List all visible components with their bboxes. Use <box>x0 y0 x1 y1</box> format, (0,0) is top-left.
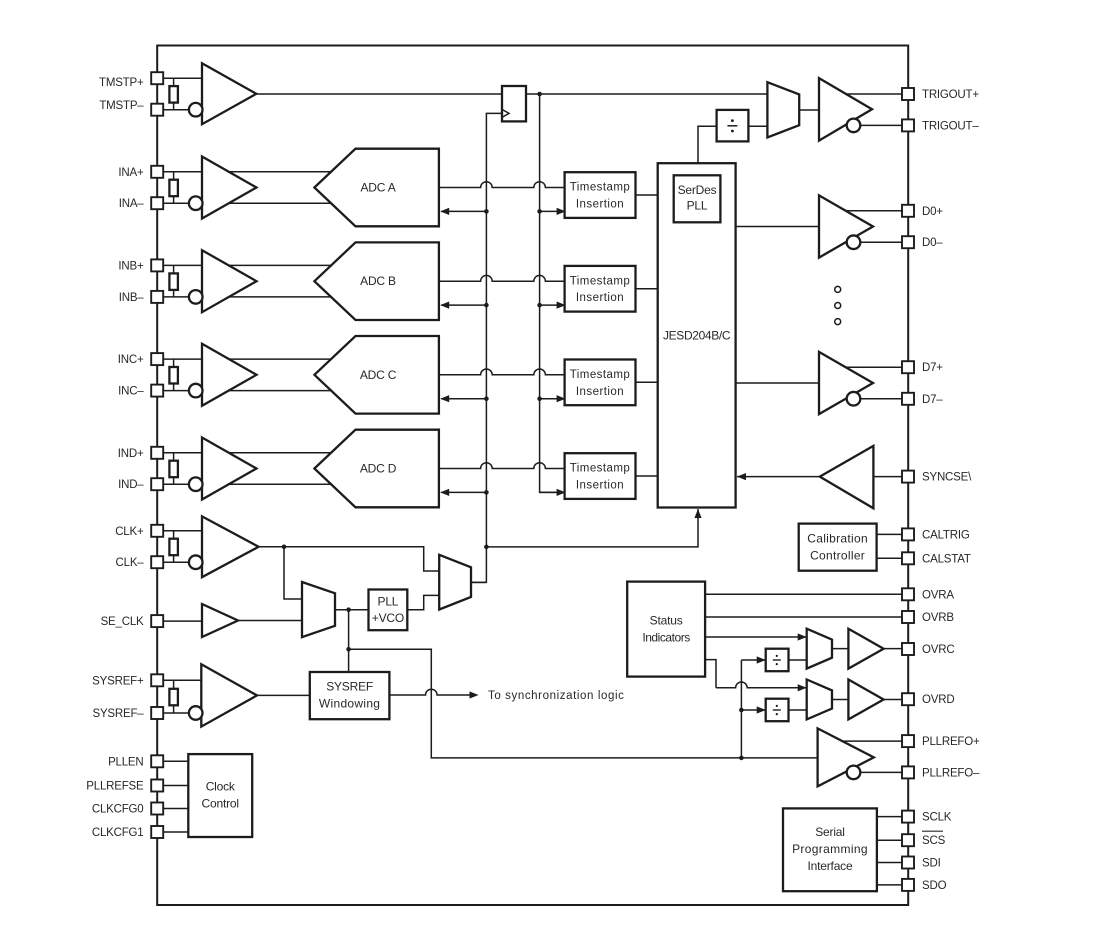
svg-text:OVRB: OVRB <box>922 612 954 624</box>
svg-text:CLKCFG0: CLKCFG0 <box>92 804 144 816</box>
wire sample clock into ADC C <box>441 398 486 400</box>
ADC D <box>314 430 439 508</box>
pin OVRD <box>902 693 914 705</box>
mux PLL bypass <box>439 555 471 610</box>
wire IND- input <box>163 483 340 485</box>
wire CLKCFG0 <box>163 808 188 810</box>
input buffer SE_CLK <box>202 604 238 637</box>
svg-text:Interface: Interface <box>808 859 853 873</box>
wire CLK+ input <box>163 530 212 532</box>
inversion bubble <box>189 290 203 304</box>
pin SDI <box>902 857 914 869</box>
arrowhead into Timestamp D <box>557 489 566 496</box>
ADC B <box>314 242 439 320</box>
wire SE_CLK input <box>163 620 210 622</box>
resistor termination INC <box>169 367 178 384</box>
wire CALSTAT <box>877 557 902 559</box>
arrowhead into OVRD divider <box>757 706 766 713</box>
wire SYNCSE from pad <box>874 476 902 478</box>
wire INC+ input <box>163 358 340 360</box>
wire ADC C data output <box>439 369 565 375</box>
junction clock ADC A <box>484 209 489 214</box>
pin D0+ <box>902 205 914 217</box>
wire PLLREFSE <box>163 785 188 787</box>
wire INA+ input <box>163 171 340 173</box>
divider block OVRD <box>766 699 789 722</box>
wire PLLREFO- output <box>860 771 902 773</box>
svg-text:CLK–: CLK– <box>116 557 145 569</box>
pin D7+ <box>902 361 914 373</box>
wire PLLEN <box>163 760 188 762</box>
arrowhead sync logic <box>470 691 479 698</box>
svg-text:INC–: INC– <box>118 386 144 398</box>
wire TMSTP- input <box>163 109 196 111</box>
output buffer OVRC <box>848 629 883 669</box>
svg-text:IND+: IND+ <box>118 448 144 460</box>
divider block trigger <box>717 110 749 141</box>
input buffer amp CLK <box>202 516 259 577</box>
Status Indicators block <box>627 582 705 677</box>
arrowhead into JESD right <box>737 473 746 480</box>
wire OVRD mux to buffer <box>832 699 848 701</box>
wire SYSREF+ input <box>163 679 212 681</box>
resistor termination INB <box>169 273 178 290</box>
wire Timestamp B to JESD <box>636 288 658 290</box>
wire from resistor <box>173 477 175 484</box>
svg-text:To synchronization logic: To synchronization logic <box>488 690 625 702</box>
svg-text:TMSTP+: TMSTP+ <box>99 77 144 89</box>
wire OVRD divider to mux <box>789 709 807 711</box>
pin SYSREF+ <box>151 674 163 686</box>
svg-text:CALTRIG: CALTRIG <box>922 529 970 541</box>
arrowhead into OVRC mux <box>798 633 807 640</box>
svg-text:Indicators: Indicators <box>642 631 690 645</box>
svg-text:SCLK: SCLK <box>922 812 952 824</box>
pin INA&#8211; <box>151 197 163 209</box>
input buffer amp INC <box>202 344 257 406</box>
pin TRIGOUT+ <box>902 88 914 100</box>
wire Timestamp D to JESD <box>636 475 658 477</box>
svg-text:IND–: IND– <box>118 479 144 491</box>
input buffer amp SYSREF <box>201 664 257 726</box>
junction trigger B <box>537 303 542 308</box>
svg-text:Controller: Controller <box>810 549 865 563</box>
wire sample clock into ADC B <box>441 304 486 306</box>
svg-text:Insertion: Insertion <box>576 480 624 492</box>
junction trigger C <box>537 396 542 401</box>
svg-text:CLK+: CLK+ <box>115 526 144 538</box>
JESD204B/C block <box>658 163 736 507</box>
wire mux1 to PLL <box>335 609 369 611</box>
Timestamp Insertion A <box>565 172 636 218</box>
wire trigger into Timestamp C <box>540 398 565 400</box>
SYSREF Windowing block <box>310 672 390 719</box>
wire CLK to mux2 <box>259 547 440 571</box>
Timestamp Insertion C <box>565 360 636 406</box>
wire ADC D data output <box>439 463 565 469</box>
wire OVRD output <box>884 699 902 701</box>
resistor termination CLK <box>169 539 178 556</box>
pin INA+ <box>151 166 163 178</box>
wire to resistor <box>173 531 175 539</box>
wire CLK- input <box>163 561 196 563</box>
wire into OVRD divider <box>741 709 764 711</box>
output buffer PLLREFO <box>818 728 874 786</box>
wire IND+ input <box>163 452 340 454</box>
wire PLL to mux2 <box>407 595 439 609</box>
arrowhead into OVRC divider <box>757 656 766 663</box>
svg-text:Windowing: Windowing <box>319 697 380 711</box>
pin CALTRIG <box>902 528 914 540</box>
inversion bubble <box>189 555 203 569</box>
chip outline <box>157 46 908 906</box>
svg-text:D7+: D7+ <box>922 362 943 374</box>
svg-text:TRIGOUT–: TRIGOUT– <box>922 120 979 132</box>
pin D0&#8211; <box>902 236 914 248</box>
pin PLLREFO+ <box>902 735 914 747</box>
wire JESD to D0 buffer <box>736 226 819 228</box>
svg-text:PLLREFO–: PLLREFO– <box>922 767 980 779</box>
wire CALTRIG <box>877 533 902 535</box>
inversion bubble <box>189 196 203 210</box>
svg-text:CALSTAT: CALSTAT <box>922 553 971 565</box>
wire trigger into Timestamp A <box>540 210 565 212</box>
pin D7&#8211; <box>902 393 914 405</box>
svg-text:Timestamp: Timestamp <box>570 463 631 475</box>
svg-text:PLLREFSE: PLLREFSE <box>86 781 144 793</box>
wire OVRB <box>705 616 902 618</box>
wire to resistor <box>173 265 175 273</box>
svg-text:Timestamp: Timestamp <box>570 182 631 194</box>
pin SE_CLK <box>151 615 163 627</box>
wire Timestamp A to JESD <box>636 194 658 196</box>
wire to synchronization logic <box>389 689 469 695</box>
arrowhead into Timestamp C <box>557 395 566 402</box>
wire trigger vertical <box>540 94 565 492</box>
wire clock to JESD204 <box>486 509 698 547</box>
inversion bubble <box>189 384 203 398</box>
svg-text:SYSREF: SYSREF <box>326 679 373 693</box>
Serial Programming Interface block <box>783 808 877 891</box>
junction clock to JESD <box>484 545 489 550</box>
svg-text:Programming: Programming <box>792 842 868 856</box>
resistor termination TMSTP <box>169 86 178 103</box>
output buffer D0 <box>819 195 873 257</box>
pin SYSREF&#8211; <box>151 707 163 719</box>
inversion bubble <box>847 119 861 133</box>
junction trigger A <box>537 209 542 214</box>
pin IND+ <box>151 447 163 459</box>
mux trigger select <box>767 82 799 137</box>
wire OVRC divider to mux <box>789 659 807 661</box>
svg-text:SYNCSE\: SYNCSE\ <box>922 472 972 484</box>
wire OVRD from status <box>705 660 716 688</box>
wire SCLK <box>877 816 902 818</box>
ADC A <box>314 149 439 227</box>
arrowhead into OVRD mux <box>798 684 807 691</box>
svg-text:SYSREF+: SYSREF+ <box>92 675 144 687</box>
wire INA- input <box>163 202 340 204</box>
svg-text:ADC C: ADC C <box>360 368 397 382</box>
arrowhead into ADC A <box>440 208 449 215</box>
arrowhead into JESD bottom <box>694 509 701 518</box>
svg-text:PLL: PLL <box>378 595 399 609</box>
wire to SYSREF windowing <box>348 610 350 672</box>
Timestamp Insertion B <box>565 266 636 312</box>
svg-text:INA–: INA– <box>119 198 145 210</box>
svg-text:Serial: Serial <box>815 825 844 839</box>
wire INB- input <box>163 296 340 298</box>
input buffer amp INA <box>202 157 257 219</box>
inversion bubble <box>847 766 861 780</box>
flip-flop clock marker <box>502 109 509 117</box>
pin SYNCSE\ <box>902 471 914 483</box>
wire TRIGOUT+ output <box>846 93 902 95</box>
wire SDI <box>877 862 902 864</box>
inversion bubble <box>189 477 203 491</box>
svg-text:Insertion: Insertion <box>576 386 624 398</box>
svg-text:OVRC: OVRC <box>922 644 954 656</box>
wire D7- output <box>860 398 902 400</box>
wire divider to mux <box>748 125 767 127</box>
svg-text:SDO: SDO <box>922 880 947 892</box>
pin PLLEN <box>151 755 163 767</box>
wire Timestamp C to JESD <box>636 381 658 383</box>
resistor termination IND <box>169 461 178 478</box>
resistor termination INA <box>169 180 178 197</box>
wire CLK to mux1 <box>284 547 302 599</box>
wire to resistor <box>173 680 175 689</box>
Clock Control block <box>188 754 252 837</box>
pin OVRA <box>902 588 914 600</box>
svg-text:D0–: D0– <box>922 237 943 249</box>
wire to resistor top <box>173 78 175 86</box>
svg-text:Insertion: Insertion <box>576 292 624 304</box>
Calibration Controller block <box>799 524 877 571</box>
wire D0- output <box>860 241 902 243</box>
pin TMSTP&#8211; <box>151 104 163 116</box>
wire SYNCSE to JESD <box>737 476 821 478</box>
mux OVRC <box>807 629 832 669</box>
divider block OVRC <box>766 649 789 672</box>
wire into OVRC divider <box>741 659 764 661</box>
wire TMSTP+ input <box>163 77 212 79</box>
svg-text:INB+: INB+ <box>118 260 144 272</box>
wire PLLREFO+ output <box>843 740 902 742</box>
divide symbol <box>773 709 781 711</box>
junction clock ADC D <box>484 490 489 495</box>
wire from resistor bottom <box>173 103 175 110</box>
svg-text:ADC D: ADC D <box>360 462 397 476</box>
wire TRIGOUT- output <box>861 124 903 126</box>
wire to resistor <box>173 359 175 367</box>
wire SerDes PLL to divider <box>698 126 717 175</box>
pin CALSTAT <box>902 552 914 564</box>
wire ADC A data output <box>439 182 565 188</box>
pin IND&#8211; <box>151 478 163 490</box>
wire from resistor <box>173 555 175 562</box>
svg-text:SCS: SCS <box>922 835 946 847</box>
svg-text:Timestamp: Timestamp <box>570 369 631 381</box>
wire mux2 output <box>471 581 486 583</box>
pin CLKCFG0 <box>151 803 163 815</box>
svg-text:PLL: PLL <box>687 198 708 212</box>
pin OVRC <box>902 643 914 655</box>
wire from resistor <box>173 384 175 391</box>
input buffer SYNCSE <box>820 446 874 508</box>
wire JESD to D7 buffer <box>736 382 819 384</box>
svg-text:TRIGOUT+: TRIGOUT+ <box>922 89 979 101</box>
wire OVRC select input <box>705 636 806 638</box>
pin CLK+ <box>151 525 163 537</box>
junction clock ADC B <box>484 303 489 308</box>
resistor termination SYSREF <box>169 689 178 706</box>
ellipsis circles between lanes <box>835 286 841 292</box>
wire SCS <box>877 839 902 841</box>
wire sample clock vertical <box>471 113 502 582</box>
wire ADC B data output <box>439 275 565 281</box>
input buffer amp TMSTP <box>202 63 256 124</box>
arrowhead into ADC D <box>440 489 449 496</box>
wire INC- input <box>163 390 340 392</box>
wire from resistor <box>173 290 175 297</box>
inversion bubble <box>189 103 203 117</box>
inversion bubble <box>189 706 203 720</box>
pin OVRB <box>902 611 914 623</box>
pin INB+ <box>151 259 163 271</box>
junction to PLL reference output <box>346 647 351 652</box>
wire from resistor <box>173 196 175 203</box>
arrowhead into Timestamp B <box>557 302 566 309</box>
svg-text:PLLEN: PLLEN <box>108 756 143 768</box>
arrowhead into ADC C <box>440 395 449 402</box>
divide symbol <box>773 659 781 661</box>
wire sample clock into ADC D <box>441 491 486 493</box>
wire OVRC output <box>884 648 902 650</box>
wire OVRD select input <box>716 682 806 688</box>
ADC C <box>314 336 439 414</box>
input buffer amp INB <box>202 250 257 312</box>
wire OVRA <box>705 593 902 595</box>
junction trigger line <box>537 92 542 97</box>
svg-text:ADC A: ADC A <box>360 181 395 195</box>
svg-text:Insertion: Insertion <box>576 199 624 211</box>
svg-text:Calibration: Calibration <box>807 532 868 546</box>
wire mux to TRIGOUT buffer <box>799 109 819 111</box>
mux OVRD <box>807 680 832 720</box>
mux clock select <box>302 582 335 637</box>
svg-text:SDI: SDI <box>922 858 941 870</box>
svg-text:ADC B: ADC B <box>360 274 396 288</box>
input buffer amp IND <box>202 438 257 500</box>
wire sample clock into ADC A <box>441 210 486 212</box>
svg-text:INC+: INC+ <box>118 354 144 366</box>
pin CLK&#8211; <box>151 556 163 568</box>
pin PLLREFSE <box>151 780 163 792</box>
svg-text:Control: Control <box>202 797 239 811</box>
junction clock ADC C <box>484 396 489 401</box>
svg-text:Clock: Clock <box>206 780 236 794</box>
junction divider feed <box>739 708 744 713</box>
svg-text:OVRA: OVRA <box>922 589 954 601</box>
pin PLLREFO&#8211; <box>902 766 914 778</box>
junction PLL ref <box>346 607 351 612</box>
wire trigger into Timestamp D <box>540 491 565 493</box>
svg-text:D7–: D7– <box>922 394 943 406</box>
pin SDO <box>902 879 914 891</box>
pin INB&#8211; <box>151 291 163 303</box>
wire D7+ output <box>840 366 902 368</box>
wire to resistor <box>173 172 175 180</box>
output buffer OVRD <box>848 680 883 720</box>
output buffer D7 <box>819 352 873 414</box>
flip-flop timestamp sync <box>502 86 526 121</box>
pin INC+ <box>151 353 163 365</box>
wire SYSREF amp to windowing <box>257 694 310 696</box>
svg-text:SE_CLK: SE_CLK <box>101 616 144 628</box>
svg-text:TMSTP–: TMSTP– <box>99 100 144 112</box>
arrowhead into ADC B <box>440 302 449 309</box>
wire SYSREF- input <box>163 712 196 714</box>
svg-text:JESD204B/C: JESD204B/C <box>663 328 731 342</box>
arrowhead into Timestamp A <box>557 208 566 215</box>
SerDes PLL block <box>674 175 721 222</box>
wire D0+ output <box>840 210 902 212</box>
pin SCLK <box>902 811 914 823</box>
wire trigger into Timestamp B <box>540 304 565 306</box>
junction CLK <box>282 545 287 550</box>
output buffer TRIGOUT <box>819 78 872 141</box>
divide symbol <box>727 125 737 127</box>
wire OVRC mux to buffer <box>832 648 848 650</box>
wire TMSTP trigger line <box>256 93 767 95</box>
wire SDO <box>877 884 902 886</box>
pin TRIGOUT&#8211; <box>902 119 914 131</box>
junction PLL reference <box>739 756 744 761</box>
pin INC&#8211; <box>151 385 163 397</box>
pin TMSTP+ <box>151 72 163 84</box>
inversion bubble <box>847 235 861 249</box>
wire from resistor <box>173 705 175 713</box>
wire CLKCFG1 <box>163 831 188 833</box>
pin SCS <box>902 834 914 846</box>
svg-text:D0+: D0+ <box>922 206 943 218</box>
svg-text:+VCO: +VCO <box>372 611 404 625</box>
pin CLKCFG1 <box>151 826 163 838</box>
svg-text:PLLREFO+: PLLREFO+ <box>922 736 980 748</box>
inversion bubble <box>847 392 861 406</box>
svg-text:CLKCFG1: CLKCFG1 <box>92 827 144 839</box>
PLL+VCO block <box>369 590 408 631</box>
wire to resistor <box>173 453 175 461</box>
svg-text:OVRD: OVRD <box>922 694 954 706</box>
Timestamp Insertion D <box>565 453 636 499</box>
svg-text:Status: Status <box>650 614 683 628</box>
wire SE_CLK to mux1 <box>238 620 302 622</box>
wire divider feed vertical <box>740 660 742 758</box>
svg-text:INB–: INB– <box>119 292 145 304</box>
svg-text:INA+: INA+ <box>118 167 144 179</box>
svg-text:Timestamp: Timestamp <box>570 275 631 287</box>
wire PLL reference to PLLREFO <box>349 649 818 758</box>
svg-text:SYSREF–: SYSREF– <box>92 708 144 720</box>
svg-text:SerDes: SerDes <box>678 183 717 197</box>
wire INB+ input <box>163 264 340 266</box>
